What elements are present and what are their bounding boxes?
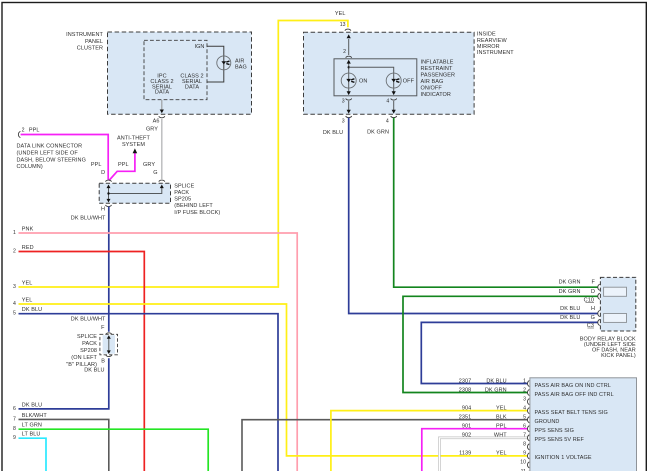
svg-text:(BEHIND LEFT: (BEHIND LEFT: [174, 203, 213, 209]
SPLICE PACK SP208 label: [66, 334, 97, 368]
svg-text:13: 13: [340, 22, 346, 28]
air bag indicator lamp U-lamp: [217, 56, 231, 70]
pin G connector arc: [598, 319, 600, 325]
svg-text:INSTRUMENT: INSTRUMENT: [477, 50, 514, 56]
svg-text:PASS AIR BAG ON IND CTRL: PASS AIR BAG ON IND CTRL: [535, 383, 611, 389]
svg-text:3: 3: [342, 118, 345, 124]
splice pack SP205: [99, 183, 170, 203]
wire PPL 901 to conn pin6: [422, 429, 528, 471]
conn labels row7: [462, 433, 585, 444]
svg-text:PPL: PPL: [118, 162, 129, 168]
svg-text:LT GRN: LT GRN: [22, 423, 42, 429]
wire DK BLU row5: [19, 314, 279, 471]
svg-text:REARVIEW: REARVIEW: [477, 38, 508, 44]
svg-text:5: 5: [13, 311, 16, 317]
svg-text:BLK/WHT: BLK/WHT: [22, 413, 48, 419]
svg-text:ON: ON: [359, 79, 367, 85]
svg-text:2: 2: [523, 387, 526, 393]
data link connector label: [17, 144, 86, 171]
pin 3 connector arc outer: [346, 116, 352, 118]
bottom connector box: [530, 378, 637, 471]
pin 4 connector arc inner: [391, 98, 397, 100]
instrument panel cluster label: [66, 32, 103, 52]
pin F connector arc SP208: [106, 333, 112, 335]
svg-text:SP205: SP205: [174, 197, 191, 203]
body relay cavity H-G: [604, 314, 627, 323]
pin 13 connector arc: [345, 29, 351, 31]
body relay cavity F-D: [604, 287, 627, 296]
wire PPL splice to anti-theft: [109, 153, 135, 181]
svg-text:901: 901: [462, 424, 471, 430]
svg-text:BLK: BLK: [496, 415, 507, 421]
DK GRN F label: [559, 280, 596, 286]
conn pin10: [520, 460, 529, 468]
junction dot: [348, 66, 350, 68]
svg-text:3: 3: [523, 396, 526, 402]
svg-text:(UNDER LEFT SIDE OF: (UNDER LEFT SIDE OF: [17, 150, 79, 156]
svg-text:YEL: YEL: [22, 298, 33, 304]
wire branch to OFF led: [349, 67, 394, 91]
splice pack SP208 box: [100, 334, 118, 355]
svg-text:RESTRAINT: RESTRAINT: [421, 66, 453, 72]
svg-text:4: 4: [386, 99, 389, 105]
svg-text:IGNITION 1 VOLTAGE: IGNITION 1 VOLTAGE: [535, 455, 592, 461]
svg-text:PACK: PACK: [174, 190, 189, 196]
svg-text:2: 2: [343, 49, 346, 55]
svg-text:4: 4: [13, 301, 16, 307]
wire GRY A6 to splice pack G: [161, 119, 163, 179]
wire BLK/WHT row7: [19, 419, 109, 471]
svg-text:DK BLU/WHT: DK BLU/WHT: [71, 216, 106, 222]
svg-text:8: 8: [523, 442, 526, 448]
node 4 YEL label: [13, 298, 32, 308]
svg-text:SP208: SP208: [80, 348, 97, 354]
svg-text:BAG: BAG: [235, 64, 247, 70]
pin H connector arc: [598, 310, 600, 316]
svg-text:GRY: GRY: [146, 127, 158, 133]
node 6 DK BLU label: [13, 402, 42, 412]
BODY RELAY BLOCK label: [580, 336, 636, 359]
wire DK BLU/WHT SP205 H to SP208 F: [108, 207, 110, 332]
SP205 internal bus: [107, 185, 164, 203]
svg-text:PASS SEAT BELT TENS SIG: PASS SEAT BELT TENS SIG: [535, 410, 608, 416]
conn pin7 arc: [527, 435, 529, 441]
wire DK BLU mirror pin3 to body relay H: [349, 118, 598, 314]
wire WHT 902 to conn pin7 core: [439, 438, 527, 471]
svg-text:2307: 2307: [459, 378, 472, 384]
svg-text:MIRROR: MIRROR: [477, 44, 500, 50]
svg-text:2308: 2308: [459, 387, 472, 393]
C10 label: [584, 298, 594, 304]
svg-text:PPS SENS 5V REF: PPS SENS 5V REF: [535, 437, 585, 443]
DK BLU G label: [560, 315, 595, 321]
wire LT GRN row8: [19, 429, 209, 471]
wire BLK to conn pin5: [242, 420, 528, 471]
conn pin8: [523, 442, 529, 450]
node 5 DK BLU label: [13, 307, 42, 317]
conn labels row9: [459, 451, 592, 462]
wire DK BLU body relay G to conn pin1: [421, 322, 598, 383]
svg-text:KICK PANEL): KICK PANEL): [601, 353, 636, 359]
svg-text:RED: RED: [22, 245, 34, 251]
svg-text:D: D: [101, 170, 105, 176]
svg-text:INSIDE: INSIDE: [477, 32, 496, 38]
svg-text:10: 10: [520, 460, 526, 466]
connector arc at data link wire start: [18, 131, 20, 137]
svg-text:DK BLU: DK BLU: [323, 130, 343, 136]
svg-text:DK GRN: DK GRN: [559, 280, 581, 286]
wire IGN to air bag lamp loop: [207, 46, 224, 82]
svg-text:GROUND: GROUND: [535, 419, 560, 425]
svg-text:7: 7: [523, 433, 526, 439]
pin 4 connector arc outer: [391, 116, 397, 118]
svg-text:COLUMN): COLUMN): [17, 164, 43, 170]
svg-text:1139: 1139: [459, 451, 471, 457]
conn labels row6: [462, 424, 574, 435]
svg-text:CLUSTER: CLUSTER: [77, 46, 103, 52]
svg-text:2: 2: [22, 128, 25, 134]
svg-text:9: 9: [523, 451, 526, 457]
anti-theft arrow: [133, 148, 138, 153]
pin B connector arc SP208: [106, 355, 112, 357]
svg-text:H: H: [591, 306, 595, 312]
IPC CLASS 2 SERIAL DATA label: [150, 74, 173, 96]
INSIDE REARVIEW MIRROR INSTRUMENT label: [477, 32, 514, 57]
svg-text:IGN: IGN: [194, 44, 204, 50]
svg-text:DATA: DATA: [185, 84, 199, 90]
conn labels row1: [459, 378, 611, 389]
svg-text:4: 4: [386, 118, 389, 124]
IPC inner dashed box: [144, 40, 207, 99]
svg-text:OFF: OFF: [403, 79, 415, 85]
svg-text:6: 6: [13, 406, 16, 412]
svg-text:DK GRN: DK GRN: [559, 289, 581, 295]
svg-text:D: D: [591, 289, 595, 295]
wire pin2 into indicator with arrow: [347, 60, 351, 92]
pin 3 connector arc inner: [346, 98, 352, 100]
svg-text:PPL: PPL: [496, 424, 507, 430]
svg-text:B: B: [101, 358, 105, 364]
node 9 LT BLU label: [13, 432, 40, 442]
svg-text:DK GRN: DK GRN: [485, 387, 507, 393]
node 7 BLK/WHT label: [13, 413, 47, 423]
C3 label: [587, 323, 594, 329]
svg-text:4: 4: [523, 405, 526, 411]
svg-text:1: 1: [523, 378, 526, 384]
svg-text:8: 8: [13, 426, 16, 432]
svg-text:C10: C10: [584, 298, 594, 304]
instrument panel cluster box: [108, 32, 252, 114]
conn pin9 arc: [527, 453, 529, 459]
wire RED row2: [19, 252, 145, 471]
svg-text:SPLICE: SPLICE: [77, 334, 97, 340]
svg-text:YEL: YEL: [496, 405, 507, 411]
conn pin2 arc: [527, 390, 529, 396]
wire YEL row4 to conn pin9: [19, 304, 528, 456]
node 3 YEL label: [13, 281, 32, 291]
svg-text:YEL: YEL: [496, 451, 507, 457]
svg-text:DK BLU/WHT: DK BLU/WHT: [71, 317, 106, 323]
mirror assembly outer box: [304, 32, 475, 114]
wire DK GRN mirror pin4 to body relay F: [394, 118, 598, 287]
svg-text:AIR BAG: AIR BAG: [421, 79, 444, 85]
SPLICE PACK SP205 label: [174, 183, 220, 215]
svg-text:DK BLU: DK BLU: [560, 306, 580, 312]
svg-text:I/P FUSE BLOCK): I/P FUSE BLOCK): [174, 210, 220, 216]
svg-text:PASS AIR BAG OFF IND CTRL: PASS AIR BAG OFF IND CTRL: [535, 392, 614, 398]
node 8 LT GRN label: [13, 423, 42, 433]
pin D connector arc: [106, 180, 112, 182]
svg-text:GRY: GRY: [143, 162, 155, 168]
wire pin3 to mirror box bottom: [347, 101, 351, 114]
conn pin3: [523, 396, 529, 404]
svg-text:DK GRN: DK GRN: [367, 129, 389, 135]
node 1 PNK label: [13, 227, 34, 237]
conn pin11: [521, 469, 530, 471]
svg-text:DATA LINK CONNECTOR: DATA LINK CONNECTOR: [17, 144, 83, 150]
mirror indicator inner box: [334, 59, 417, 96]
pin H connector arc: [106, 205, 112, 207]
svg-text:G: G: [153, 170, 157, 176]
pin D connector arc: [598, 293, 600, 299]
pin A6 connector: [159, 116, 165, 118]
svg-text:A6: A6: [153, 119, 160, 125]
svg-text:DK BLU: DK BLU: [22, 307, 42, 313]
ON led lamp: [341, 73, 356, 88]
svg-text:C3: C3: [587, 323, 594, 329]
svg-text:3: 3: [13, 284, 16, 290]
wire IPC class2 data down to pin A6: [160, 100, 164, 113]
conn pin5 arc: [528, 417, 530, 423]
svg-text:F: F: [592, 280, 596, 286]
svg-text:YEL: YEL: [22, 281, 33, 287]
svg-text:ON/OFF: ON/OFF: [421, 85, 443, 91]
conn labels row5: [459, 415, 560, 426]
wire WHT 902 to conn pin7 casing: [439, 438, 527, 471]
svg-text:ANTI-THEFT: ANTI-THEFT: [117, 136, 150, 142]
svg-text:INDICATOR: INDICATOR: [421, 92, 451, 98]
svg-text:904: 904: [462, 405, 471, 411]
svg-text:LT BLU: LT BLU: [22, 432, 41, 438]
svg-text:PASSENGER: PASSENGER: [421, 72, 456, 78]
wire PNK row1: [19, 233, 298, 471]
wire OFF led to inner box bottom: [392, 91, 396, 95]
node 2 PPL label: [22, 128, 40, 134]
DK BLU H label: [560, 306, 595, 312]
svg-text:902: 902: [462, 433, 471, 439]
wire DK GRN body relay D to conn pin2: [403, 296, 598, 392]
conn labels row4: [462, 405, 608, 416]
svg-text:DASH, BELOW STEERING: DASH, BELOW STEERING: [17, 157, 86, 163]
svg-text:5: 5: [523, 415, 526, 421]
svg-text:1: 1: [13, 230, 16, 236]
svg-text:DATA: DATA: [155, 90, 169, 96]
wire pin4 to mirror box bottom: [392, 101, 396, 114]
svg-text:2: 2: [13, 249, 16, 255]
svg-text:7: 7: [13, 416, 16, 422]
pin G connector arc: [159, 180, 165, 182]
wire DK BLU SP208 B to row6: [19, 358, 109, 409]
svg-text:3: 3: [342, 99, 345, 105]
conn pin6 arc: [528, 426, 530, 432]
svg-text:9: 9: [13, 435, 16, 441]
svg-text:H: H: [101, 207, 105, 213]
svg-text:PNK: PNK: [22, 227, 34, 233]
pin F connector arc: [598, 284, 600, 290]
pin 2 connector arc: [346, 56, 352, 58]
wire ON led to inner box bottom: [347, 91, 351, 95]
OFF led lamp: [386, 73, 401, 88]
wire PPL data link to splice pack D: [21, 135, 109, 180]
svg-text:(ON LEFT: (ON LEFT: [71, 355, 97, 361]
AIR BAG label: [235, 59, 247, 71]
svg-text:PPL: PPL: [91, 162, 102, 168]
wire YEL row3 to mirror pin 13: [19, 21, 348, 288]
wire LT BLU row9: [19, 438, 47, 471]
INFLATABLE RESTRAINT PASSENGER AIR BAG ON/OFF INDICATOR label: [421, 59, 456, 98]
ANTI-THEFT SYSTEM label: [117, 136, 150, 149]
svg-text:DK BLU: DK BLU: [486, 378, 506, 384]
svg-text:INFLATABLE: INFLATABLE: [421, 59, 454, 65]
svg-text:G: G: [591, 315, 595, 321]
wire YEL 904 to conn pin4: [331, 411, 528, 471]
conn labels row2: [459, 387, 614, 398]
svg-text:WHT: WHT: [494, 433, 507, 439]
svg-text:DK BLU: DK BLU: [84, 367, 104, 373]
SP208 internal bus: [103, 335, 115, 354]
svg-text:6: 6: [523, 424, 526, 430]
svg-text:F: F: [101, 325, 105, 331]
svg-text:DK BLU: DK BLU: [560, 315, 580, 321]
node 2 RED label: [13, 245, 34, 255]
svg-text:SYSTEM: SYSTEM: [122, 142, 145, 148]
body relay block box: [600, 277, 635, 331]
svg-text:SPLICE: SPLICE: [174, 183, 194, 189]
svg-text:PANEL: PANEL: [85, 39, 103, 45]
svg-text:DK BLU: DK BLU: [22, 402, 42, 408]
DK GRN D label: [559, 289, 595, 295]
CLASS 2 SERIAL DATA label: [180, 74, 203, 91]
svg-text:PACK: PACK: [82, 341, 97, 347]
svg-text:PPL: PPL: [29, 128, 40, 134]
conn pin4 arc: [527, 408, 529, 414]
svg-text:YEL: YEL: [335, 11, 346, 17]
svg-text:2351: 2351: [459, 415, 472, 421]
conn pin1 arc: [528, 381, 530, 387]
pin 13 entry arrow: [347, 34, 351, 55]
svg-text:INSTRUMENT: INSTRUMENT: [66, 32, 103, 38]
svg-text:PPS SENS SIG: PPS SENS SIG: [535, 428, 574, 434]
